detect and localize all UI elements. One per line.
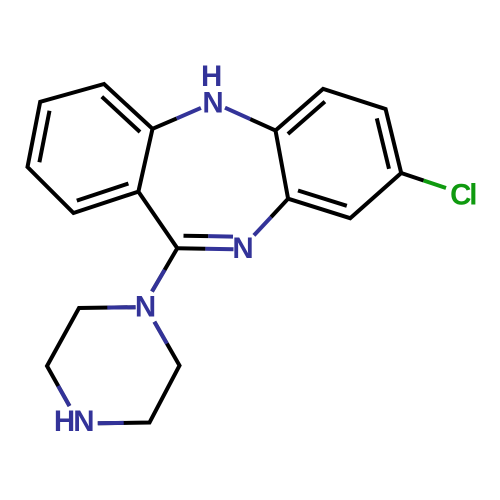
svg-text:l: l — [469, 179, 477, 212]
bond aryl C-Cl — [401, 173, 423, 181]
bond aryl C-N5 (left) — [153, 118, 177, 128]
bond C11-N1 blue half — [152, 270, 165, 292]
bond N10-aryl C — [271, 199, 288, 217]
bond CH2-NH blue half — [58, 386, 69, 406]
svg-text:N: N — [232, 232, 253, 265]
double bond inner line F=A — [102, 97, 140, 132]
svg-text:N: N — [135, 291, 156, 324]
piperazine bonds N1-CH2-CH2-NH (left side) — [47, 307, 136, 406]
double bond C11=N10 main line — [177, 246, 205, 251]
bond CH2-N1 blue half — [154, 322, 167, 344]
bond N1-CH2 blue half — [107, 305, 135, 309]
bond NH-CH2 blue half — [98, 421, 124, 425]
svg-text:N: N — [202, 87, 223, 120]
piperazine bonds NH-CH2-CH2-N1 (right side) — [98, 322, 180, 424]
svg-text:H: H — [54, 405, 75, 438]
double bond inner line D=E — [77, 184, 129, 201]
benzene ring left (C-C bonds) — [28, 84, 153, 213]
double bond inner line I=J — [377, 118, 389, 168]
svg-text:N: N — [73, 405, 94, 438]
benzene ring right (C-C bonds) — [276, 89, 402, 218]
double bond inner line K=L — [298, 191, 347, 206]
bonds C-C11 and C11-N(piperazine) — [138, 192, 177, 292]
double bond inner line B=C — [39, 111, 49, 163]
double bond C11=N10 second line — [184, 234, 209, 238]
double bond inner line G=H — [288, 102, 325, 134]
bond aryl C-N5 (right) — [250, 119, 275, 130]
